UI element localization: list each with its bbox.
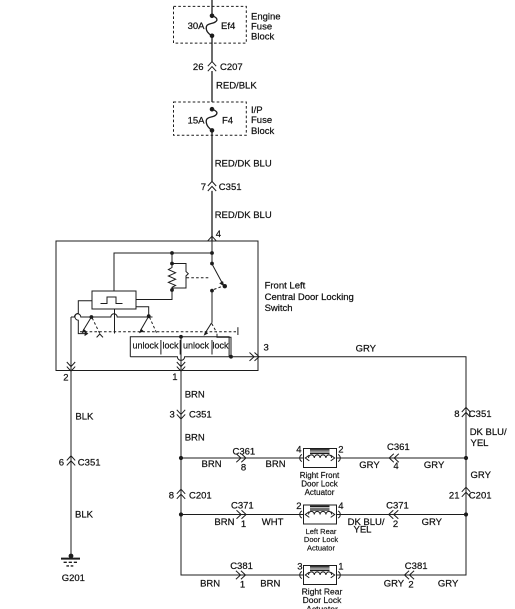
svg-text:C351: C351	[78, 458, 101, 469]
wire row1 left BRN	[181, 457, 304, 459]
connector C351 pin 7	[208, 181, 216, 186]
svg-text:Central Door Locking: Central Door Locking	[265, 292, 354, 303]
wire timer right lower to switch2 common	[136, 307, 149, 316]
svg-text:26: 26	[193, 62, 204, 73]
lower contact of rocker	[210, 289, 214, 293]
connector C201 pin 21	[462, 487, 470, 492]
svg-text:30A: 30A	[188, 21, 206, 32]
svg-text:lock: lock	[212, 341, 229, 351]
wire right column GRY/DK BLU	[258, 357, 466, 575]
svg-text:C381: C381	[405, 561, 428, 572]
node center row2	[179, 512, 183, 516]
svg-text:8: 8	[169, 490, 174, 501]
svg-text:YEL: YEL	[354, 524, 372, 535]
svg-text:1: 1	[172, 372, 177, 383]
node rail-switch junction	[210, 251, 214, 255]
svg-text:C207: C207	[220, 62, 243, 73]
node output bus tap	[179, 335, 183, 339]
svg-text:1: 1	[241, 519, 246, 530]
svg-text:4: 4	[296, 444, 301, 455]
mech link end stop	[237, 327, 239, 335]
node resistor top	[170, 262, 174, 266]
svg-text:1: 1	[338, 561, 343, 572]
wire RED/BLK	[211, 71, 213, 102]
svg-text:GRY: GRY	[359, 460, 380, 471]
svg-text:Fuse: Fuse	[251, 115, 272, 126]
wire BLK left column	[70, 371, 72, 557]
I/P Fuse Block (dashed enclosure)	[174, 102, 247, 135]
wire pin3 bus to edge	[229, 356, 258, 358]
wire	[211, 36, 213, 62]
wire RED/DK BLU	[211, 130, 213, 181]
svg-text:7: 7	[201, 182, 206, 193]
svg-text:BRN: BRN	[185, 433, 205, 444]
svg-text:GRY: GRY	[384, 579, 405, 590]
mech link dashed row	[80, 331, 236, 333]
svg-text:6: 6	[59, 458, 64, 469]
node right row1	[464, 456, 468, 460]
svg-text:C381: C381	[230, 561, 253, 572]
switch1 blades	[83, 317, 91, 331]
svg-text:C351: C351	[189, 410, 212, 421]
svg-text:lock: lock	[162, 341, 179, 351]
svg-text:BRN: BRN	[260, 579, 280, 590]
node resistor bottom	[170, 288, 174, 292]
switch blade right (sec3)	[205, 323, 212, 334]
svg-text:Actuator: Actuator	[306, 604, 338, 609]
svg-text:1: 1	[240, 579, 245, 590]
svg-text:C351: C351	[219, 182, 242, 193]
svg-text:Actuator: Actuator	[307, 544, 335, 553]
svg-text:BLK: BLK	[75, 412, 94, 423]
parallel element loop	[172, 264, 188, 289]
svg-text:BRN: BRN	[202, 459, 222, 470]
svg-text:C371: C371	[231, 501, 254, 512]
svg-text:3: 3	[297, 561, 302, 572]
svg-text:3: 3	[170, 410, 175, 421]
wire pin4 vertical inside switch	[211, 241, 213, 264]
wire timer bottom to linkage	[114, 309, 116, 334]
actuator M3 Right Rear Door Lock	[300, 566, 340, 585]
rocker switch upper (blade from pin4)	[210, 262, 214, 266]
svg-text:DK BLU/: DK BLU/	[470, 427, 507, 438]
wire row3 right GRY	[337, 515, 467, 576]
node switch2 common	[147, 314, 151, 318]
fuse Ef4 30A	[210, 14, 215, 19]
svg-text:21: 21	[449, 490, 460, 501]
wire BRN center column	[180, 371, 182, 576]
fuse F4 15A	[210, 107, 215, 112]
svg-text:BLK: BLK	[75, 510, 94, 521]
svg-text:C201: C201	[469, 490, 492, 501]
svg-text:2: 2	[338, 444, 343, 455]
pin 3 exit arrow	[250, 353, 255, 361]
wire pin1 down	[180, 337, 182, 371]
node center row1	[179, 456, 183, 460]
svg-text:2: 2	[408, 579, 413, 590]
wire row2 left BRN	[181, 514, 304, 516]
connector C351 pin 8	[462, 407, 470, 412]
svg-text:4: 4	[216, 229, 221, 240]
svg-text:BRN: BRN	[214, 517, 234, 528]
svg-text:BRN: BRN	[185, 389, 205, 400]
node rail-resistor junction	[170, 251, 174, 255]
wire top rail	[114, 253, 212, 291]
connector C207 pin 26	[208, 62, 216, 67]
wire rocker to lower switch	[211, 291, 213, 323]
svg-text:F4: F4	[222, 116, 233, 127]
svg-text:Front Left: Front Left	[265, 280, 306, 291]
resistor (zigzag)	[168, 264, 175, 291]
wire battery feed	[211, 0, 213, 15]
wire resistor bottom to timer right	[136, 290, 172, 300]
connector C351 pin 6	[67, 456, 75, 461]
wire resistor feed	[171, 253, 173, 264]
svg-text:C351: C351	[469, 409, 492, 420]
svg-text:unlock: unlock	[132, 341, 159, 351]
connector C351 pin 3	[177, 410, 185, 415]
svg-text:8: 8	[241, 463, 246, 474]
svg-text:Block: Block	[251, 32, 274, 43]
svg-text:RED/DK BLU: RED/DK BLU	[215, 210, 272, 221]
svg-text:C361: C361	[387, 442, 410, 453]
svg-text:2: 2	[296, 501, 301, 512]
Front Left Central Door Locking Switch (enclosure U1)	[56, 241, 258, 371]
svg-text:BRN: BRN	[266, 459, 286, 470]
wire row3 left BRN	[181, 515, 304, 576]
svg-text:GRY: GRY	[438, 579, 459, 590]
unlock/lock position frame	[130, 337, 229, 357]
svg-text:3: 3	[264, 343, 269, 354]
svg-text:2: 2	[393, 519, 398, 530]
wire timer left to unlock contact	[75, 301, 92, 334]
svg-text:Actuator: Actuator	[305, 488, 335, 497]
wire RED/DK BLU	[211, 191, 213, 241]
svg-text:GRY: GRY	[422, 517, 443, 528]
svg-text:RED/BLK: RED/BLK	[216, 81, 257, 92]
contact stub to output bus	[217, 334, 231, 357]
ground G201	[69, 554, 74, 559]
pin 2 exit arrow	[67, 362, 75, 367]
node pin3 bus junction	[229, 355, 233, 359]
wire pin2 down	[70, 317, 72, 371]
svg-text:YEL: YEL	[471, 438, 489, 449]
timer module (pulse box)	[92, 291, 136, 309]
svg-text:GRY: GRY	[356, 343, 377, 354]
svg-text:15A: 15A	[188, 116, 206, 127]
connector C201 pin 8	[177, 489, 185, 494]
svg-text:GRY: GRY	[471, 470, 492, 481]
common bar line (sec1-2) with hops	[71, 314, 153, 317]
wire row2 right	[337, 514, 467, 516]
svg-text:Block: Block	[251, 126, 274, 137]
node right row2	[464, 512, 468, 516]
svg-text:RED/DK BLU: RED/DK BLU	[215, 158, 272, 169]
svg-text:GRY: GRY	[424, 460, 445, 471]
svg-text:8: 8	[454, 409, 459, 420]
svg-text:4: 4	[338, 501, 343, 512]
actuator M2 Left Rear Door Lock	[300, 505, 340, 524]
svg-text:Switch: Switch	[265, 303, 293, 314]
svg-text:BRN: BRN	[200, 579, 220, 590]
svg-text:WHT: WHT	[262, 517, 284, 528]
svg-text:2: 2	[63, 373, 68, 384]
svg-text:unlock: unlock	[183, 341, 210, 351]
switch2 blades	[140, 316, 148, 330]
svg-text:4: 4	[393, 461, 398, 472]
node switch1 common	[90, 315, 94, 319]
svg-text:C201: C201	[189, 490, 212, 501]
pin 1 exit arrow	[177, 362, 185, 367]
mech link dashed (element to blade)	[187, 277, 210, 279]
svg-text:C371: C371	[386, 501, 409, 512]
wire row1 right GRY	[337, 457, 467, 459]
svg-text:Ef4: Ef4	[221, 21, 235, 32]
actuator M1 Right Front Door Lock	[300, 449, 340, 468]
Engine Fuse Block (dashed enclosure)	[174, 6, 247, 43]
svg-text:G201: G201	[62, 573, 85, 584]
